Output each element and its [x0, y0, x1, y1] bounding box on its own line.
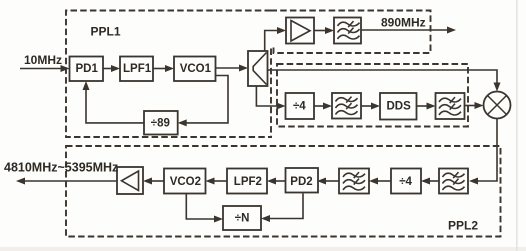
block LPF2 — [227, 169, 267, 194]
wire divider 89 to PD1 — [86, 89, 144, 123]
wire filter5 to PD2 — [317, 178, 339, 185]
svg-text:÷89: ÷89 — [151, 118, 170, 130]
splitter — [248, 51, 268, 86]
filter F5 — [339, 169, 369, 194]
wire PD2 to divider N — [261, 194, 303, 223]
block LPF1 — [120, 57, 153, 82]
svg-text:VCO1: VCO1 — [180, 63, 212, 75]
wire output arrow — [16, 178, 117, 185]
wire filter3 to mixer — [465, 102, 484, 109]
svg-text:÷N: ÷N — [235, 213, 250, 225]
svg-text:PD1: PD1 — [76, 63, 99, 75]
wire mixer down to filter4 — [469, 119, 497, 185]
scan artifact line right — [516, 0, 518, 251]
wire filter4 to divider4b — [421, 178, 439, 185]
block divider 4 bottom — [391, 169, 421, 194]
filter F3 — [436, 93, 465, 119]
wire splitter bottom to divider 4 — [256, 86, 285, 110]
wire VCO1 feedback tap to divider — [187, 76, 229, 123]
svg-text:PD2: PD2 — [290, 176, 312, 188]
wire arrow into PD1 bottom — [83, 81, 90, 90]
svg-text:÷4: ÷4 — [293, 101, 306, 113]
filter F2 — [332, 93, 361, 119]
svg-text:LPF1: LPF1 — [123, 63, 152, 75]
svg-text:890MHz: 890MHz — [381, 16, 426, 30]
svg-text:LPF2: LPF2 — [234, 176, 262, 188]
amplifier top — [286, 18, 314, 44]
wire arrow into divider 89 — [178, 119, 187, 126]
block VCO1 — [174, 57, 216, 82]
wire DDS to filter3 — [417, 103, 436, 110]
wire VCO1 to splitter — [216, 65, 249, 72]
wire splitter top to amp — [265, 27, 286, 51]
amplifier output buffer — [117, 167, 143, 194]
filter F1 — [334, 18, 361, 44]
wire PD1 to LPF1 — [103, 65, 120, 72]
wire divider4 to filter2 — [314, 103, 332, 110]
scan artifact band bottom — [0, 247, 526, 251]
mixer — [484, 92, 511, 119]
wire VCO2 to divider N — [186, 194, 223, 223]
filter F4 — [439, 169, 468, 194]
wire LPF2 to VCO2 — [206, 178, 228, 185]
wire LPF1 to VCO1 — [153, 65, 174, 72]
wire amp to filter1 — [314, 27, 334, 34]
wire PD2 to LPF2 — [267, 178, 285, 185]
svg-text:VCO2: VCO2 — [170, 176, 201, 188]
block divider N — [223, 206, 261, 230]
dashed box top output chain — [271, 11, 431, 54]
block VCO2 — [164, 169, 206, 194]
svg-text:÷4: ÷4 — [399, 176, 412, 188]
svg-text:10MHz: 10MHz — [24, 53, 62, 67]
dashed box PPL2 — [66, 146, 501, 237]
wire splitter to mixer top — [268, 70, 501, 92]
svg-text:DDS: DDS — [387, 101, 412, 113]
wire filter2 to DDS — [361, 103, 380, 110]
block divider 4 top — [286, 93, 315, 119]
svg-text:4810MHz~5395MHz: 4810MHz~5395MHz — [4, 161, 118, 175]
wire 890MHz output — [361, 27, 456, 34]
wire divider4b to filter5 — [369, 178, 391, 185]
block divider 89 — [144, 111, 178, 135]
block PD2 — [286, 168, 319, 193]
block PD1 — [70, 57, 104, 82]
block DDS — [380, 93, 417, 120]
dashed box PPL1 — [66, 11, 272, 138]
dashed box DDS chain — [277, 64, 468, 127]
wire input arrow to PD1 — [20, 65, 70, 72]
svg-text:PPL2: PPL2 — [448, 219, 478, 233]
wire VCO2 to amp2 — [143, 178, 164, 185]
svg-text:PPL1: PPL1 — [91, 25, 121, 39]
